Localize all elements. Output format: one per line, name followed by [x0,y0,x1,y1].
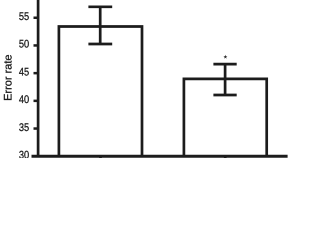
svg-text:40: 40 [19,94,29,106]
svg-text:55: 55 [19,11,29,23]
svg-text:50: 50 [19,39,29,51]
svg-text:45: 45 [19,66,29,78]
svg-text:Error rate: Error rate [2,54,14,100]
svg-text:30: 30 [19,149,29,158]
svg-text:35: 35 [19,122,29,134]
